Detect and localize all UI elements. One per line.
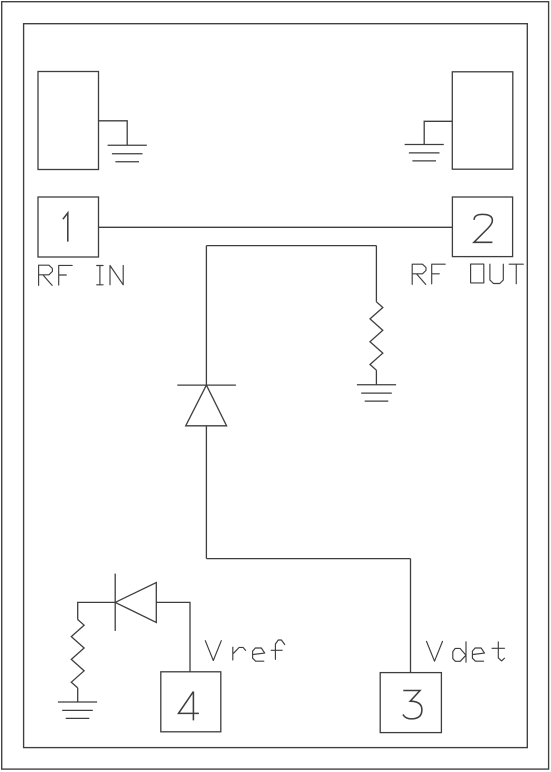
- port box pin 1 (RF IN): [38, 197, 99, 257]
- wire (coupled line right end down to termination resistor): [375, 246, 377, 302]
- diode D1 (detector, cathode bar up): [177, 385, 236, 426]
- pin number 3: [403, 691, 422, 719]
- pin number 2: [474, 214, 493, 242]
- pad (top-left ground pad): [38, 72, 99, 170]
- resistor (coupled line termination): [370, 302, 383, 370]
- wire (coupled line): [206, 245, 376, 247]
- ground (bottom-left): [58, 702, 97, 718]
- wire (D2 anode to pin 4): [156, 602, 190, 671]
- port box pin 3 (Vdet): [380, 673, 441, 733]
- wire (horizontal run toward Vdet): [206, 558, 410, 560]
- port box pin 2 (RF OUT): [452, 197, 512, 257]
- wire (resistor to ground): [375, 370, 377, 385]
- wire (RF main line pin1 to pin2): [99, 226, 453, 228]
- diode D2 (reference, cathode bar left): [115, 574, 156, 631]
- wire (top-left pad to ground): [99, 121, 128, 146]
- wire (diode anode down): [205, 426, 207, 559]
- label Vref: [205, 640, 284, 661]
- wire (resistor to ground, bottom-left): [77, 688, 79, 702]
- ground (top-right): [405, 145, 444, 161]
- pad (top-right ground pad): [452, 72, 513, 169]
- port box pin 4 (Vref): [161, 672, 221, 732]
- ground (top-left): [108, 145, 147, 161]
- label RF IN: [39, 265, 124, 285]
- wire (D2 cathode to resistor): [78, 602, 116, 619]
- ground (termination): [357, 385, 396, 401]
- wire (down to pin 3): [410, 559, 412, 673]
- label RF OUT: [412, 264, 523, 284]
- wire (coupled line left end down to diode cathode): [205, 246, 207, 385]
- pin number 1: [63, 213, 68, 242]
- pin number 4: [179, 692, 199, 721]
- resistor (reference bias): [71, 620, 84, 688]
- label Vdet: [427, 641, 505, 662]
- wire (top-right pad to ground): [424, 121, 452, 144]
